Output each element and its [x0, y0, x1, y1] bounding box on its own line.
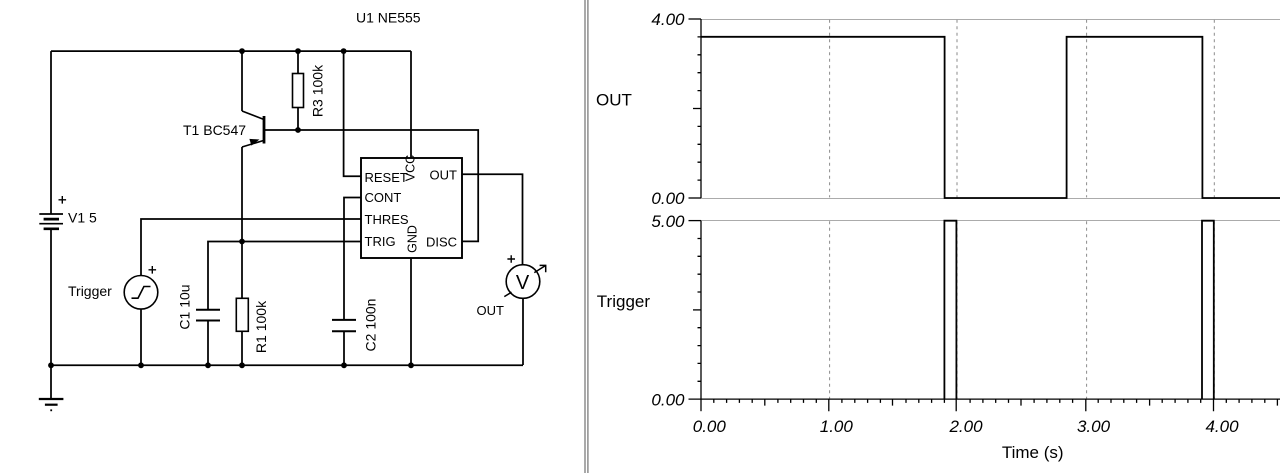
svg-text:OUT: OUT	[477, 303, 505, 318]
trigger step symbol	[132, 287, 151, 299]
svg-text:4.00: 4.00	[1205, 417, 1239, 436]
svg-text:CONT: CONT	[365, 190, 402, 205]
svg-text:1.00: 1.00	[820, 417, 854, 436]
node C1/ground rail	[205, 362, 211, 368]
node R3/top rail	[295, 48, 301, 54]
node base/R3	[295, 127, 301, 133]
svg-text:Trigger: Trigger	[597, 292, 651, 311]
svg-text:V1 5: V1 5	[68, 210, 97, 226]
svg-text:Time (s): Time (s)	[1002, 443, 1064, 462]
node GND pin/ground rail	[408, 362, 414, 368]
wire VCC top rail	[51, 50, 411, 52]
svg-text:2.00: 2.00	[948, 417, 983, 436]
OUT plot gridlines	[701, 20, 1280, 199]
Trigger plot gridlines	[701, 221, 1280, 399]
svg-text:3.00: 3.00	[1077, 417, 1111, 436]
Trigger plot x-axis	[689, 398, 1280, 400]
resistor R1	[236, 298, 248, 331]
wire TRIG pin to C1	[208, 242, 361, 310]
wire voltmeter to ground rail	[522, 298, 524, 365]
wire trigger source to ground rail	[140, 309, 142, 365]
svg-text:THRES: THRES	[365, 212, 409, 227]
svg-text:0.00: 0.00	[651, 189, 685, 208]
wire GND pin to ground rail	[410, 258, 412, 365]
wire THRES pin to trigger source	[141, 219, 361, 276]
voltmeter needle arrow	[534, 265, 546, 272]
wire R1 bottom to ground rail	[241, 331, 243, 365]
svg-text:TRIG: TRIG	[365, 234, 396, 249]
svg-text:Trigger: Trigger	[68, 283, 112, 299]
op-amp U1 NE555 body	[361, 158, 462, 258]
node R1/ground rail	[239, 362, 245, 368]
svg-text:0.00: 0.00	[693, 417, 727, 436]
node trigger/ground rail	[138, 362, 144, 368]
Trigger waveform pulse 2	[1202, 221, 1214, 399]
wire CONT pin to C2	[344, 198, 361, 320]
voltmeter plus sign	[507, 255, 515, 263]
wire battery negative to ground rail	[50, 230, 52, 366]
wire VCC drop to U1 VCC pin	[410, 51, 412, 158]
svg-text:5.00: 5.00	[651, 212, 685, 231]
svg-text:U1 NE555: U1 NE555	[356, 10, 421, 26]
voltmeter OUT	[506, 265, 540, 299]
node TRIG/emitter	[239, 239, 245, 245]
svg-text:GND: GND	[406, 225, 420, 253]
svg-text:DISC: DISC	[426, 235, 457, 250]
svg-text:RESET: RESET	[365, 170, 408, 185]
svg-text:VCC: VCC	[404, 155, 418, 181]
wire RESET pin to top rail	[344, 51, 361, 176]
transistor T1 emitter lead	[242, 141, 264, 148]
wire ground rail	[51, 364, 523, 366]
junction dots	[48, 48, 414, 368]
OUT waveform	[701, 37, 1280, 198]
x-axis minor ticks	[714, 399, 1265, 403]
Trigger waveform pulse 1	[944, 221, 956, 399]
wire base node to DISC pin	[264, 130, 478, 241]
node C2/ground rail	[341, 362, 347, 368]
wire collector of T1 to top rail	[241, 51, 243, 111]
wire left supply from top rail to battery	[50, 51, 52, 214]
trigger plus sign	[149, 266, 157, 274]
svg-text:T1 BC547: T1 BC547	[183, 122, 246, 138]
capacitor C1	[196, 310, 220, 321]
wire R3 top to rail	[297, 51, 299, 73]
node RESET/top rail	[341, 48, 347, 54]
OUT plot y-axis	[689, 19, 702, 198]
transistor T1 base bar	[263, 116, 266, 144]
svg-text:OUT: OUT	[596, 91, 632, 110]
svg-text:4.00: 4.00	[651, 10, 685, 29]
svg-text:R3 100k: R3 100k	[310, 64, 326, 117]
svg-text:R1 100k: R1 100k	[253, 300, 269, 353]
window splitter	[585, 0, 588, 473]
svg-text:OUT: OUT	[430, 168, 458, 183]
trigger source VG1	[124, 276, 158, 310]
resistor R3	[293, 74, 304, 108]
svg-text:0.00: 0.00	[651, 390, 685, 409]
battery plus sign	[59, 196, 67, 204]
Trigger plot y-axis	[689, 221, 702, 400]
node battery/ground rail	[48, 362, 54, 368]
transistor T1 emitter arrow	[249, 139, 259, 146]
ground	[39, 365, 64, 410]
wire C1 bottom to ground rail	[207, 321, 209, 366]
wire C2 bottom to ground rail	[343, 331, 345, 365]
transistor T1 collector lead	[242, 111, 264, 120]
svg-text:C2 100n: C2 100n	[363, 299, 379, 352]
svg-text:V: V	[516, 272, 530, 294]
node collector/top rail	[239, 48, 245, 54]
wire OUT pin to voltmeter	[462, 174, 523, 265]
wire R3 bottom to base node	[297, 108, 299, 131]
battery V1	[39, 214, 63, 229]
svg-text:C1 10u: C1 10u	[177, 284, 193, 329]
voltmeter needle tail	[504, 292, 511, 296]
wire emitter of T1 to R1 top	[241, 147, 243, 298]
x-axis ticks	[701, 399, 1277, 411]
capacitor C2	[332, 320, 356, 331]
